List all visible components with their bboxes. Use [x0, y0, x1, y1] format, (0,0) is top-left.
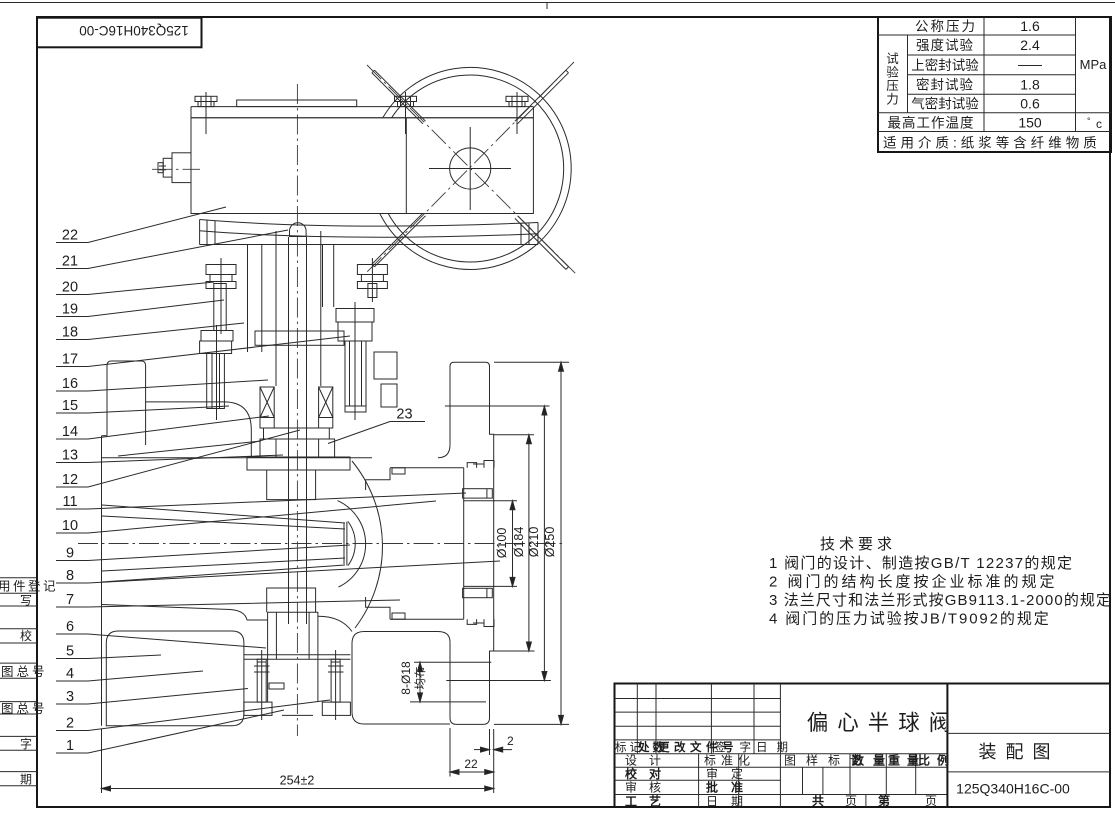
yoke right plate: [333, 245, 335, 307]
left margin strip rows: [0, 578, 58, 787]
svg-text:7: 7: [66, 592, 74, 608]
svg-text:工艺: 工艺: [625, 794, 673, 809]
right flange with bosses: [450, 362, 494, 724]
trunnion top line: [268, 611, 318, 613]
dim line 8-phi18: [419, 662, 421, 702]
svg-text:23: 23: [396, 407, 412, 423]
svg-text:审定: 审定: [706, 766, 756, 781]
svg-text:9: 9: [66, 546, 74, 562]
svg-text:150: 150: [1018, 115, 1042, 131]
spoke bar SE: [515, 216, 569, 270]
hub top inner line: [390, 467, 464, 469]
svg-text:2.4: 2.4: [1020, 37, 1040, 53]
svg-text:19: 19: [62, 302, 78, 318]
bottom bolt left: [244, 650, 272, 720]
svg-text:最高工作温度: 最高工作温度: [888, 115, 975, 131]
svg-text:4 阀门的压力试验按JB/T9092的规定: 4 阀门的压力试验按JB/T9092的规定: [769, 611, 1051, 628]
seat step detail bottom: [392, 613, 405, 619]
gearbox cover plate: [237, 100, 357, 107]
dim line phi210: [543, 406, 545, 681]
dim 8-phi18 ext top: [414, 661, 491, 663]
dim ext line phi210 top: [445, 405, 550, 407]
svg-text:共: 共: [812, 793, 824, 808]
svg-text:第: 第: [878, 793, 890, 808]
svg-text:22: 22: [464, 757, 478, 771]
top-right pressure table: [878, 17, 1111, 152]
gearbox top plate: [191, 106, 533, 108]
ball bore arc: [348, 522, 355, 566]
bracket bolt right: [357, 258, 387, 302]
dim line phi184: [528, 435, 530, 651]
svg-text:图总号: 图总号: [1, 702, 48, 716]
svg-text:Ø250: Ø250: [543, 527, 557, 558]
lower trunnion block: [267, 588, 316, 612]
svg-text:2 阀门的结构长度按企业标准的规定: 2 阀门的结构长度按企业标准的规定: [769, 573, 1058, 591]
top-left drawing number box: [37, 18, 202, 48]
seat detail notch bottom: [467, 619, 494, 626]
svg-text:15: 15: [62, 398, 78, 414]
seat detail notch top: [467, 461, 494, 468]
flange hub fillet bottom: [438, 632, 450, 643]
svg-text:均布: 均布: [414, 667, 427, 690]
left flange face step: [102, 435, 108, 437]
svg-text:1.8: 1.8: [1020, 77, 1040, 93]
svg-text:页: 页: [925, 794, 937, 808]
svg-text:校对: 校对: [625, 766, 673, 781]
bonnet upper: [260, 428, 335, 457]
svg-text:14: 14: [62, 424, 78, 440]
svg-text:8: 8: [66, 568, 74, 584]
svg-text:8-Ø18: 8-Ø18: [399, 661, 413, 695]
half ball surface arc: [338, 501, 366, 587]
seat upper step: [366, 468, 390, 490]
bottom trunnion columns: [244, 612, 351, 715]
upper-left body lobe: [146, 402, 252, 458]
dim line phi100: [512, 501, 514, 587]
body bottom S-curve right of trunnion: [318, 616, 352, 631]
lower-left body lobe: [106, 631, 244, 726]
top bolt left: [195, 92, 217, 134]
spoke bar SW: [372, 213, 426, 267]
svg-text:c: c: [1096, 117, 1102, 131]
svg-text:Ø100: Ø100: [495, 528, 509, 559]
spoke bar NW: [372, 70, 426, 124]
half ball outer contour arc: [352, 461, 382, 628]
svg-text:13: 13: [62, 448, 78, 464]
svg-text:试验压力: 试验压力: [884, 51, 898, 106]
hub crosshair: [429, 168, 511, 170]
svg-text:17: 17: [62, 352, 78, 368]
svg-text:写: 写: [20, 594, 32, 608]
body top edge sloped: [118, 441, 261, 456]
seat lower step: [366, 597, 390, 619]
seat retainer bottom: [463, 588, 493, 597]
svg-text:密封试验: 密封试验: [916, 77, 974, 93]
dim ext line phi184 top: [494, 434, 534, 436]
spoke bar NE: [515, 70, 569, 124]
stem vertical centerline: [296, 84, 298, 736]
svg-text:页: 页: [845, 794, 857, 808]
svg-text:12: 12: [62, 472, 78, 488]
dim line phi250: [560, 362, 562, 724]
dim ext line phi250 top: [494, 361, 569, 363]
svg-text:字: 字: [20, 736, 32, 751]
svg-text:5: 5: [66, 644, 74, 660]
seat step detail top: [392, 468, 405, 474]
upper trunnion block: [267, 470, 316, 500]
input shaft: [158, 153, 191, 183]
bore cone line 1: [102, 505, 345, 523]
svg-text:期: 期: [20, 773, 32, 787]
bore cone line 4: [102, 565, 345, 582]
bonnet flange: [247, 457, 350, 470]
svg-text:4: 4: [66, 666, 74, 682]
seat ring bore: [463, 468, 465, 619]
bottom-right body lobe: [352, 632, 450, 725]
svg-text:2: 2: [66, 716, 74, 732]
stem top nut: [290, 223, 307, 237]
svg-text:审核: 审核: [625, 780, 673, 795]
svg-text:1.6: 1.6: [1020, 18, 1040, 34]
svg-text:11: 11: [62, 494, 77, 510]
bore cone line 2: [102, 516, 345, 529]
bore cone line 3: [102, 558, 345, 571]
svg-text:10: 10: [62, 518, 78, 534]
handwheel hub: [450, 148, 491, 189]
yoke left plate: [247, 245, 249, 352]
right gland bolt: [336, 302, 397, 420]
svg-text:22: 22: [62, 228, 78, 244]
svg-text:装配图: 装配图: [979, 742, 1060, 762]
bracket bolt left: [206, 258, 236, 334]
svg-text:图总号: 图总号: [1, 665, 48, 679]
svg-text:254±2: 254±2: [280, 774, 315, 788]
dim 8-phi18 ext bottom: [410, 701, 486, 703]
paper top edge line: [0, 2, 1115, 4]
svg-text:1: 1: [66, 738, 74, 754]
svg-text:上密封试验: 上密封试验: [911, 57, 979, 73]
part number labels with leader lines: [56, 207, 500, 754]
bottom bolt right: [322, 650, 350, 720]
stem rod: [288, 237, 290, 624]
svg-text:日期: 日期: [706, 795, 756, 809]
svg-text:Ø210: Ø210: [527, 527, 541, 558]
mounting bracket plate: [200, 220, 538, 245]
body top edge left: [102, 457, 372, 459]
svg-text:气密封试验: 气密封试验: [911, 96, 979, 112]
svg-text:21: 21: [62, 254, 78, 270]
svg-text:日期: 日期: [756, 741, 797, 754]
body bottom edge left slope: [102, 605, 247, 621]
top bolt right: [506, 92, 528, 134]
svg-text:3: 3: [66, 689, 74, 705]
svg-text:125Q340H16C-00: 125Q340H16C-00: [79, 23, 189, 38]
svg-text:标准化: 标准化: [704, 754, 755, 768]
packing box left with X: [260, 387, 274, 428]
title block: [615, 684, 1111, 809]
wheel diagonal centerline 1: [367, 65, 578, 276]
svg-text:技术要求: 技术要求: [820, 536, 896, 553]
ball bore chord: [346, 522, 348, 566]
svg-text:适用介质:纸浆等含纤维物质: 适用介质:纸浆等含纤维物质: [883, 135, 1101, 151]
dim ext line phi210 bottom: [446, 680, 551, 682]
svg-text:用件登记: 用件登记: [0, 579, 58, 594]
svg-text:0.6: 0.6: [1020, 96, 1040, 112]
svg-text:偏心半球阀: 偏心半球阀: [807, 711, 960, 735]
top bolt middle: [395, 92, 417, 134]
svg-text:比例: 比例: [918, 753, 956, 768]
svg-text:校: 校: [20, 628, 32, 643]
pipe bore bottom: [464, 585, 517, 587]
gland flange: [255, 331, 344, 345]
pipe bore top: [464, 500, 517, 502]
svg-text:MPa: MPa: [1080, 57, 1108, 72]
svg-text:125Q340H16C-00: 125Q340H16C-00: [956, 781, 1070, 797]
svg-text:16: 16: [62, 376, 78, 392]
svg-text:公称压力: 公称压力: [915, 19, 977, 34]
wheel diagonal centerline 2: [367, 62, 574, 272]
svg-text:1 阀门的设计、制造按GB/T 12237的规定: 1 阀门的设计、制造按GB/T 12237的规定: [769, 555, 1073, 572]
table dash value: [1018, 65, 1042, 67]
hub bottom inner line: [390, 618, 464, 620]
svg-text:6: 6: [66, 619, 74, 635]
svg-text:3 法兰尺寸和法兰形式按GB9113.1-2000的规定: 3 法兰尺寸和法兰形式按GB9113.1-2000的规定: [769, 592, 1112, 609]
pipe horizontal centerline: [78, 543, 564, 545]
dim 254 line: [102, 788, 494, 790]
handwheel inner rim arc: [388, 75, 563, 262]
left flange face: [101, 436, 103, 726]
seat retainer top: [463, 489, 493, 498]
gearbox housing: [191, 118, 533, 214]
svg-text:批准: 批准: [706, 780, 756, 795]
left gland stud nut: [200, 325, 233, 420]
svg-text:18: 18: [62, 325, 78, 341]
svg-text:2: 2: [507, 734, 514, 748]
packing box right with X: [319, 387, 333, 428]
dim ext line phi250 bottom: [494, 723, 569, 725]
ball bore chord 2: [343, 523, 345, 564]
stem tube: [275, 231, 277, 386]
input shaft centerline: [152, 168, 200, 170]
dim 2 arrows: [474, 749, 490, 751]
gearbox divider: [405, 118, 407, 214]
svg-text:°: °: [1087, 116, 1091, 126]
svg-text:强度试验: 强度试验: [916, 38, 974, 53]
svg-text:设计: 设计: [625, 754, 673, 768]
dim ext line phi184 bottom: [492, 650, 535, 652]
centering tick on top edge: [546, 3, 548, 10]
flange hub fillet top: [438, 445, 450, 458]
svg-text:Ø184: Ø184: [512, 527, 526, 558]
dim 22: [450, 771, 494, 773]
upper-left flange boss: [107, 361, 146, 445]
body bottom edge left of trunnion: [247, 619, 268, 621]
svg-text:20: 20: [62, 280, 78, 296]
handwheel outer rim arc: [380, 67, 571, 269]
